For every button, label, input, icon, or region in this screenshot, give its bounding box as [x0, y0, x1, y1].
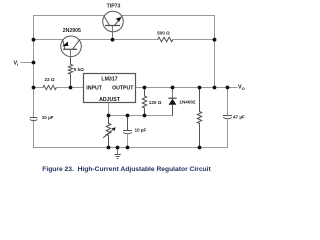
- junction: divider resistor top on output rail: [198, 86, 202, 90]
- resistor output divider (unlabeled): [197, 88, 201, 148]
- wire input to LM317: [34, 87, 84, 89]
- svg-text:TIP73: TIP73: [107, 4, 121, 10]
- junction: ground symbol on ground rail: [116, 146, 120, 150]
- junction: 120 ohm top on output rail: [143, 86, 147, 90]
- resistor 120 ohm: [142, 88, 146, 116]
- svg-text:LM317: LM317: [101, 76, 117, 82]
- svg-text:10 µF: 10 µF: [42, 115, 54, 120]
- transistor Q1 2N2905: [61, 36, 82, 57]
- IC U1 LM317: [84, 74, 136, 104]
- svg-text:1N4002: 1N4002: [179, 99, 196, 104]
- wire top rail: [34, 15, 215, 17]
- svg-text:500 Ω: 500 Ω: [157, 31, 170, 36]
- ground: [114, 148, 120, 159]
- resistor 5 kohm: [68, 57, 72, 88]
- svg-text:OUTPUT: OUTPUT: [112, 85, 134, 91]
- wire bottom rail: [34, 147, 228, 149]
- transistor Q2 TIP73: [103, 11, 124, 39]
- junction: 5 kohm / input wire: [69, 86, 73, 90]
- svg-text:Figure 23. High-Current Adjus: Figure 23. High-Current Adjustable Regul…: [42, 166, 211, 173]
- svg-text:VI: VI: [14, 61, 19, 67]
- wire base rail (2N2905/TIP73/500ohm): [34, 39, 215, 41]
- junction: 120 ohm bottom on sub-rail: [143, 114, 147, 118]
- svg-text:47 µF: 47 µF: [233, 114, 245, 119]
- wire left rail upper (VI bus): [33, 16, 35, 148]
- wire LM317 adjust lead: [108, 103, 110, 116]
- wire VI input wire: [21, 62, 34, 64]
- junction: base rail / left rail: [32, 38, 36, 42]
- junction: VI node on left rail: [32, 61, 36, 65]
- junction: 1N4002 cathode on output rail: [171, 86, 175, 90]
- wire right vertical from top rail to output rail: [214, 16, 216, 88]
- wire adjust sub-rail: [109, 115, 173, 117]
- resistor 22 ohm: [43, 85, 57, 89]
- svg-text:120 Ω: 120 Ω: [149, 100, 162, 105]
- junction: adjust lead / sub-rail: [107, 114, 111, 118]
- junction: input wire / left rail: [32, 86, 36, 90]
- junction: 47 uF top on output rail: [226, 86, 230, 90]
- junction: TIP73 base on base rail: [111, 38, 115, 42]
- capacitor 47 uF output: [223, 88, 232, 148]
- potentiometer (adjustable resistor): [103, 116, 116, 148]
- junction: potentiometer bottom on ground rail: [107, 146, 111, 150]
- resistor 500 ohm: [158, 37, 173, 42]
- junction: base rail / right vertical: [213, 38, 217, 42]
- junction: right vertical / output rail: [213, 86, 217, 90]
- junction: 10 uF top on sub-rail: [126, 114, 130, 118]
- wire output rail to VO: [136, 87, 238, 89]
- svg-text:ADJUST: ADJUST: [99, 97, 121, 103]
- svg-text:INPUT: INPUT: [86, 85, 102, 91]
- junction: divider resistor bottom on ground rail: [198, 146, 202, 150]
- svg-text:22 Ω: 22 Ω: [45, 77, 55, 82]
- diode D1 1N4002: [168, 88, 176, 116]
- capacitor 10 uF input (on left rail): [30, 118, 38, 121]
- junction: 10 uF bottom on ground rail: [126, 146, 130, 150]
- svg-text:VO: VO: [238, 85, 245, 91]
- svg-text:2N2905: 2N2905: [63, 28, 81, 34]
- svg-text:5 kΩ: 5 kΩ: [74, 67, 84, 72]
- capacitor 10 uF adjust: [123, 116, 132, 148]
- svg-text:10 µF: 10 µF: [135, 127, 147, 132]
